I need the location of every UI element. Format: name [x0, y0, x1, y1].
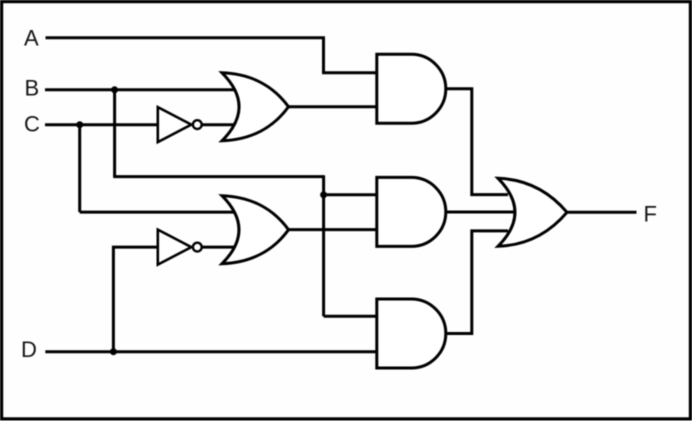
wire: B branch down	[113, 90, 116, 177]
wire: bus to AND3 top input	[324, 315, 377, 318]
wire B: input B to OR1 top input	[45, 88, 238, 91]
svg-text:F: F	[644, 202, 657, 227]
wire C: input C to NOT1 input	[45, 123, 158, 126]
wire: OR1 output to AND1 bottom input	[289, 105, 378, 108]
wire: B branch horizontal	[113, 175, 323, 178]
wire: OR2 output to AND2 bottom input	[289, 228, 378, 231]
or-gate OR2	[222, 196, 289, 264]
inverter NOT2	[158, 230, 202, 265]
wire: NOT2 output to OR2 bottom input	[202, 246, 238, 249]
wire: OR3 output to F	[567, 211, 637, 214]
wire: NOT1 output to OR1 bottom input	[202, 123, 238, 126]
node C junction	[76, 121, 83, 128]
and-gate AND2	[377, 177, 446, 246]
and-gate AND1	[377, 54, 446, 123]
wire A: input A to AND1 top input	[46, 38, 378, 73]
node bus junction	[320, 191, 327, 198]
wire: C branch down	[78, 125, 81, 212]
wire: middle vertical bus	[322, 175, 325, 316]
and-gate AND3	[377, 299, 446, 368]
or-gate OR1	[222, 73, 289, 141]
svg-text:C: C	[24, 112, 40, 137]
inverter NOT1	[158, 107, 202, 142]
svg-text:B: B	[25, 76, 40, 101]
wire: bus to AND2 top input	[324, 193, 377, 196]
wire: AND1 output to OR3 top input	[446, 89, 508, 195]
svg-text:D: D	[21, 337, 37, 362]
or-gate OR3	[498, 178, 567, 246]
wire: D branch up to NOT2 input	[113, 247, 158, 352]
node D junction	[110, 348, 117, 355]
wire D: input D to AND3 bottom input	[45, 350, 377, 353]
node B junction	[111, 86, 118, 93]
wire: AND2 output to OR3 middle input	[446, 211, 516, 214]
wire: AND3 output to OR3 bottom input	[446, 231, 508, 334]
svg-text:A: A	[24, 26, 39, 51]
wire: C branch to OR2 top input	[80, 211, 238, 214]
